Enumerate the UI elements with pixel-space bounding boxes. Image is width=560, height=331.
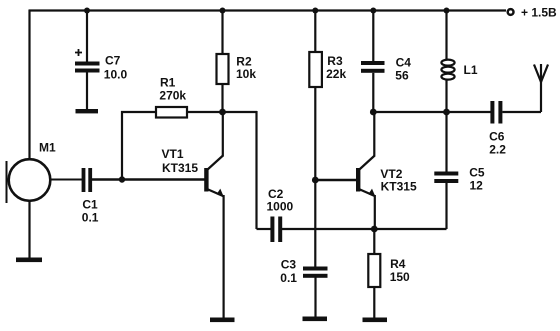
wire collector junction down to C2 xyxy=(257,111,272,229)
svg-text:VT1: VT1 xyxy=(162,147,184,161)
svg-text:12: 12 xyxy=(470,178,484,192)
ground below R4 xyxy=(363,318,388,323)
ground below VT1 emitter xyxy=(210,318,235,323)
transistor VT1 KT315 xyxy=(162,147,225,197)
wire R3 bottom down to C3 xyxy=(314,87,316,268)
wire C2 right plate along emitter line to C5 xyxy=(282,183,447,229)
svg-text:56: 56 xyxy=(395,69,409,83)
capacitor C1 xyxy=(82,168,99,225)
wire VT2 base xyxy=(315,179,356,181)
node top rail / R3 xyxy=(312,8,318,14)
svg-text:1000: 1000 xyxy=(267,200,294,214)
microphone M1 xyxy=(7,141,56,204)
node top rail / R2 xyxy=(220,8,226,14)
wire tank line C4 junction to L1 bottom xyxy=(373,111,446,113)
node emitter line / R4 xyxy=(371,226,378,233)
wire microphone bottom lead xyxy=(28,200,30,258)
ground below M1 xyxy=(16,258,42,263)
wire VT2 collector vertical up to tank xyxy=(373,112,375,157)
ground below C7 xyxy=(76,109,99,113)
resistor R4 xyxy=(368,229,410,318)
svg-text:M1: M1 xyxy=(39,141,56,155)
svg-text:+ 1.5B: + 1.5B xyxy=(521,6,557,20)
antenna xyxy=(534,64,548,82)
svg-text:C6: C6 xyxy=(489,130,505,144)
wire VT2 emitter down to emitter line xyxy=(374,195,376,229)
svg-text:C4: C4 xyxy=(396,56,412,70)
wire VT1 collector vertical xyxy=(222,112,224,157)
transistor VT2 KT315 xyxy=(356,156,417,198)
capacitor C7 xyxy=(75,10,127,109)
node tank junction L1/C5/C6 xyxy=(443,109,450,116)
node tank junction C4/VT2 collector xyxy=(370,109,377,116)
capacitor C5 xyxy=(434,112,485,192)
wire VT1 emitter down to ground xyxy=(223,195,225,318)
resistor R1 xyxy=(156,76,187,118)
node top rail / C4 xyxy=(370,8,376,14)
wire R1 left leg down to base wire xyxy=(121,111,156,180)
svg-text:2.2: 2.2 xyxy=(489,143,506,157)
svg-text:C5: C5 xyxy=(469,165,485,179)
svg-text:22k: 22k xyxy=(326,67,346,81)
node junction R1/R2/VT1 collector xyxy=(219,109,226,116)
svg-text:R3: R3 xyxy=(327,54,343,68)
wire top supply rail xyxy=(29,9,506,11)
capacitor C6 xyxy=(489,101,506,157)
wire R1 right to collector junction and on to C2 branch xyxy=(187,111,257,113)
resistor R3 xyxy=(309,10,346,87)
svg-text:C7: C7 xyxy=(105,54,121,68)
capacitor C4 xyxy=(361,10,411,112)
node R3 line / VT2 base tap xyxy=(312,177,319,184)
svg-text:L1: L1 xyxy=(464,63,478,77)
svg-text:10k: 10k xyxy=(236,67,256,81)
svg-text:R1: R1 xyxy=(160,76,176,90)
ground below C3 xyxy=(303,317,328,322)
resistor R2 xyxy=(217,10,257,112)
svg-text:C3: C3 xyxy=(281,257,297,271)
svg-text:C1: C1 xyxy=(82,198,98,212)
node top rail / L1 xyxy=(444,8,450,14)
svg-text:0.1: 0.1 xyxy=(82,211,99,225)
capacitor C3 xyxy=(280,257,327,317)
node top rail / C7 xyxy=(84,8,90,14)
wire tank junction to C6 xyxy=(447,111,492,113)
wire microphone to C1 xyxy=(50,179,82,181)
svg-text:R4: R4 xyxy=(390,257,406,271)
capacitor C2 xyxy=(267,187,294,242)
node junction on base wire xyxy=(119,176,125,182)
svg-text:10.0: 10.0 xyxy=(104,67,128,81)
wire left vertical from rail to microphone xyxy=(28,10,30,161)
inductor L1 xyxy=(441,10,477,112)
svg-text:KT315: KT315 xyxy=(162,161,198,175)
svg-text:0.1: 0.1 xyxy=(280,271,297,285)
svg-text:270k: 270k xyxy=(159,89,186,103)
wire C6 to antenna xyxy=(502,80,541,112)
svg-text:150: 150 xyxy=(390,270,410,284)
wire C1 to VT1 base xyxy=(92,178,205,180)
svg-text:KT315: KT315 xyxy=(381,179,417,193)
power terminal +1.5V xyxy=(508,6,557,20)
